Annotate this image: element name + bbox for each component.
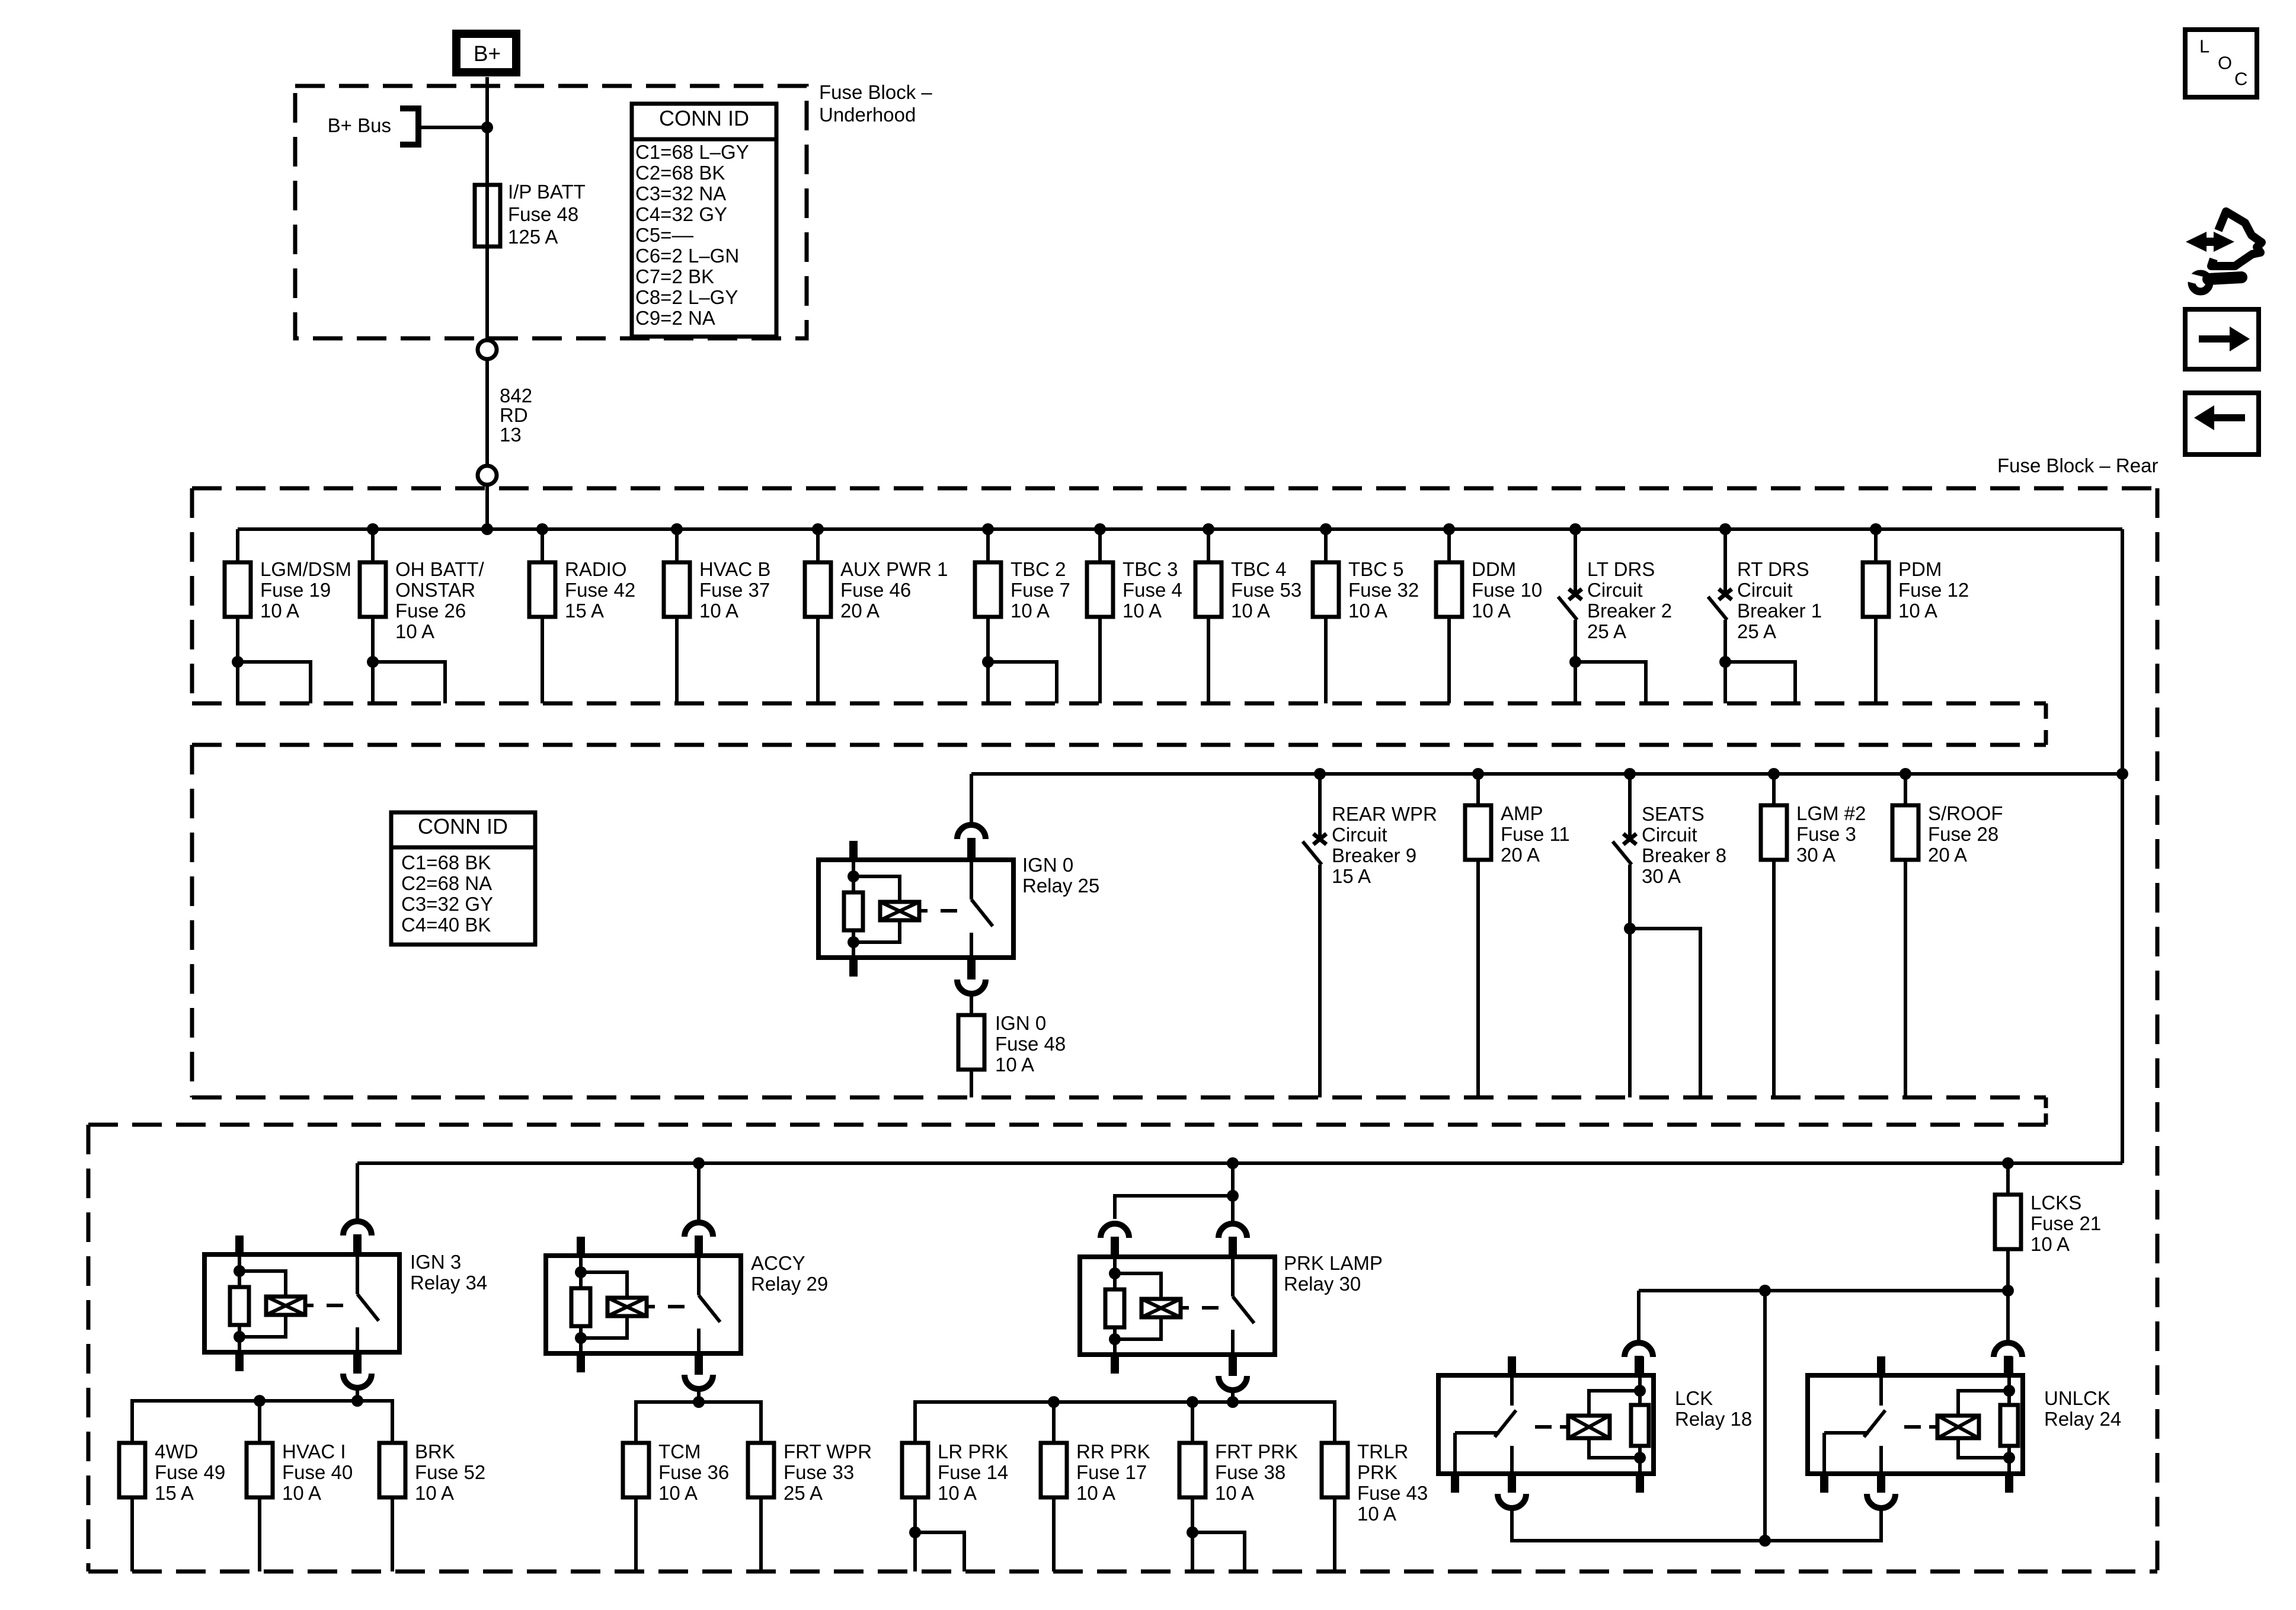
wire output FRT WPR fuse [759, 1497, 763, 1571]
wire feed PRK LAMP relay switch [1231, 1163, 1235, 1224]
relay U29 ACCY coil-to-switch dashed link [647, 1305, 655, 1308]
circuit breaker circuit breaker 1 RT DRS 25A [1719, 589, 1732, 600]
relay U24 UNLCK coil-to-switch dashed link [1929, 1425, 1937, 1429]
wire LCK coil feed [1637, 1291, 1641, 1343]
wire feed RR PRK fuse [1052, 1402, 1056, 1443]
node riser to relay bus [2116, 768, 2128, 780]
relay U25 IGN 0 box [818, 860, 1013, 958]
wire feed fuse PDM Fuse 12 10A [1874, 529, 1878, 562]
connector arc LCK switch bottom [1498, 1494, 1526, 1508]
wire lock rail riser [1763, 1291, 1767, 1541]
fuse fuse TBC 3 Fuse 4 10A [1087, 562, 1113, 617]
wire output 4WD fuse [130, 1497, 134, 1571]
connector arc ACCY relay top [685, 1222, 713, 1237]
wire feed fuse OH BATT/ONSTAR Fuse 26 10A [371, 529, 375, 562]
wire feed fuse RADIO Fuse 42 15A [541, 529, 544, 562]
wire feed fuse TBC 4 Fuse 53 10A [1207, 529, 1210, 562]
wire output fuse RADIO Fuse 42 15A [541, 617, 544, 703]
wire feed fuse AUX PWR 1 Fuse 46 20A [816, 529, 820, 562]
bus B+ feed rail (rear fuse block) [238, 527, 2122, 531]
wire output fork LR PRK fuse [913, 1497, 917, 1532]
fuse fuse HVAC B Fuse 37 10A [664, 562, 690, 617]
wire feed circuit breaker 9 REAR WPR 15A [1318, 774, 1322, 837]
connector arc ACCY relay bottom [695, 1353, 703, 1375]
bus relay/fuse rail section 2 [971, 772, 2122, 776]
wire output fuse TBC 3 Fuse 4 10A [1098, 617, 1102, 703]
relay U34 IGN 3 box [204, 1254, 399, 1352]
fuse TRLR PRK Fuse 43 10A [1322, 1443, 1348, 1497]
wire feed fuse TBC 2 Fuse 7 10A [986, 529, 990, 562]
fuse FRT PRK Fuse 38 10A [1179, 1443, 1205, 1497]
relay U24 UNLCK switch [1879, 1375, 1883, 1406]
fuse FRT WPR Fuse 33 25A [748, 1443, 774, 1497]
relay U30 PRK LAMP switch pin stubs [1229, 1238, 1237, 1257]
relay U24 UNLCK box [1808, 1375, 2023, 1474]
relay U18 LCK coil pin stubs [1636, 1356, 1644, 1375]
wire feed ACCY relay [697, 1163, 701, 1222]
fuse fuse PDM Fuse 12 10A [1863, 562, 1889, 617]
wire feed HVAC I fuse [258, 1401, 261, 1443]
connector id table CONN ID underhood [632, 104, 776, 337]
fuse block rear dashed outline section 2 [192, 743, 2046, 747]
connector arc PRK LAMP relay bottom [1229, 1355, 1237, 1376]
wire feed fuse DDM Fuse 10 10A [1447, 529, 1451, 562]
node main feed junction [481, 523, 493, 535]
connector arc PRK LAMP switch top [1219, 1224, 1247, 1238]
wire output fuse AUX PWR 1 Fuse 46 20A [816, 617, 820, 703]
wire feed IGN 3 relay [356, 1163, 359, 1221]
fuse fuse TBC 4 Fuse 53 10A [1195, 562, 1221, 617]
relay U18 LCK coil circuit [1638, 1375, 1642, 1391]
wire feed LGM #2 fuse [1772, 774, 1776, 805]
bus IGN 3 output rail [132, 1401, 392, 1443]
wire output BRK fuse [391, 1497, 394, 1571]
wire circuit 842 RD [485, 359, 489, 466]
svg-text:L: L [2199, 36, 2209, 57]
wire feed fuse TBC 3 Fuse 4 10A [1098, 529, 1102, 562]
wire output LGM #2 fuse [1772, 860, 1776, 1097]
wire output TCM fuse [634, 1497, 638, 1571]
bus PRK LAMP output rail [915, 1402, 1335, 1443]
wire feed LCKS fuse [2006, 1163, 2010, 1195]
relay U18 LCK coil-to-switch dashed link [1560, 1425, 1568, 1429]
relay U29 ACCY coil pin stubs [577, 1237, 585, 1256]
wire output fork circuit breaker 2 LT DRS 25A [1574, 620, 1577, 662]
wire B+ to underhood fuse block [485, 77, 489, 341]
connector arc IGN 3 relay top [343, 1221, 372, 1235]
fuse fuse AUX PWR 1 Fuse 46 20A [805, 562, 831, 617]
wire PRK LAMP relay output [1231, 1390, 1235, 1402]
fuse S/ROOF Fuse 28 20A [1892, 805, 1918, 860]
svg-text:Fuse Block – Rear: Fuse Block – Rear [1997, 454, 2158, 476]
wire output fuse TBC 4 Fuse 53 10A [1207, 617, 1210, 703]
node PRK LAMP coil tap [1227, 1190, 1239, 1202]
fuse IGN 0 Fuse 48 10A [958, 1015, 984, 1070]
wire output fuse TBC 5 Fuse 32 10A [1324, 617, 1328, 703]
relay U29 ACCY coil circuit [579, 1256, 583, 1272]
wire output RR PRK fuse [1052, 1497, 1056, 1571]
wire output circuit breaker 9 REAR WPR 15A [1318, 865, 1322, 1097]
wire output HVAC I fuse [258, 1497, 261, 1571]
fuse I/P BATT Fuse 48 125 A [475, 185, 500, 247]
relay U34 IGN 3 coil pin stubs [235, 1235, 244, 1254]
circuit breaker circuit breaker 9 REAR WPR 15A [1313, 834, 1326, 844]
connector arc LCK coil top [1625, 1343, 1653, 1357]
wire feed IGN 0 relay [970, 774, 973, 825]
relay U25 IGN 0 switch pin stubs [967, 841, 976, 860]
fuse fuse TBC 2 Fuse 7 10A [975, 562, 1001, 617]
bus lock relays feed rail [1639, 1289, 2008, 1292]
svg-text:Fuse Block –Underhood: Fuse Block –Underhood [819, 81, 932, 126]
fuse block underhood dashed outline [295, 86, 807, 338]
wire IGN 0 relay to fuse [970, 994, 973, 1015]
relay U34 IGN 3 coil-to-switch dashed link [305, 1304, 314, 1307]
fuse BRK Fuse 52 10A [379, 1443, 405, 1497]
node lock rail tap [1759, 1285, 1771, 1297]
relay U29 ACCY switch pin stubs [695, 1237, 703, 1256]
fuse 4WD Fuse 49 15A [119, 1443, 145, 1497]
connector arc IGN 0 relay bottom [967, 958, 976, 980]
connector arc UNLCK coil top [1994, 1343, 2022, 1357]
fuse LCKS Fuse 21 10A [1995, 1195, 2021, 1249]
wire feed S/ROOF fuse [1904, 774, 1907, 805]
wire output fork circuit breaker 1 RT DRS 25A [1723, 620, 1727, 662]
circuit breaker circuit breaker 2 LT DRS 25A [1569, 589, 1582, 600]
relay U34 IGN 3 switch pin stubs [353, 1235, 362, 1254]
fuse LGM #2 Fuse 3 30A [1761, 805, 1787, 860]
wire feed circuit breaker 8 SEATS 30A [1628, 774, 1632, 837]
relay U18 LCK switch pin stubs [1508, 1356, 1516, 1375]
fuse fuse RADIO Fuse 42 15A [529, 562, 555, 617]
connector arc IGN 3 relay bottom [353, 1352, 362, 1374]
wire output fork FRT PRK fuse [1191, 1497, 1194, 1532]
fuse fuse TBC 5 Fuse 32 10A [1313, 562, 1339, 617]
relay U25 IGN 0 coil pin stubs [849, 841, 858, 860]
wire feed AMP fuse [1476, 774, 1480, 805]
relay U24 UNLCK switch pin stubs [1877, 1356, 1885, 1375]
node lock switched rail junction [1759, 1535, 1771, 1547]
wire output fuse DDM Fuse 10 10A [1447, 617, 1451, 703]
fuse block rear dashed outline section 3 [88, 1123, 2046, 1127]
wire output fork fuse TBC 2 Fuse 7 10A [986, 617, 990, 662]
fuse block rear dashed outline section 1 [192, 486, 2157, 491]
svg-text:B+: B+ [474, 41, 501, 66]
bus switched rail section 3 [357, 1161, 2122, 1165]
relay U30 PRK LAMP coil-to-switch dashed link [1181, 1306, 1189, 1310]
icon back arrow box [2185, 393, 2259, 454]
svg-text:UNLCKRelay 24: UNLCKRelay 24 [2044, 1387, 2121, 1430]
relay U25 IGN 0 coil-to-switch dashed link [919, 909, 928, 913]
B+ Bus terminal bracket [400, 108, 418, 145]
wire ACCY relay output [697, 1389, 701, 1402]
terminal B+ [456, 34, 516, 72]
relay U30 PRK LAMP coil circuit [1113, 1257, 1117, 1273]
relay U30 PRK LAMP switch [1231, 1257, 1235, 1297]
wire output fuse PDM Fuse 12 10A [1874, 617, 1878, 703]
icon forward arrow box [2185, 309, 2259, 369]
fuse LR PRK Fuse 14 10A [902, 1443, 928, 1497]
wire into rear fuse block [485, 485, 489, 529]
svg-text:CONN ID: CONN ID [418, 814, 508, 838]
wire feed fuse TBC 5 Fuse 32 10A [1324, 529, 1328, 562]
relay U18 LCK switch [1510, 1375, 1514, 1406]
wire output fuse HVAC B Fuse 37 10A [675, 617, 679, 703]
fuse TCM Fuse 36 10A [623, 1443, 649, 1497]
fuse AMP Fuse 11 20A [1465, 805, 1491, 860]
connector id table CONN ID rear [391, 812, 535, 945]
relay U29 ACCY switch [697, 1256, 701, 1295]
wire feed FRT PRK fuse [1191, 1402, 1194, 1443]
wire output fork fuse OH BATT/ONSTAR Fuse 26 10A [371, 617, 375, 662]
relay U34 IGN 3 switch [356, 1254, 359, 1294]
in-line connector to rear fuse block [478, 466, 497, 485]
svg-text:C1=68 BKC2=68 NAC3=32 GYC4=40: C1=68 BKC2=68 NAC3=32 GYC4=40 BK [401, 852, 493, 936]
wire feed circuit breaker 1 RT DRS 25A [1723, 529, 1727, 593]
node LCKS output junction [2002, 1285, 2014, 1297]
wire B+ Bus to main feed [418, 126, 487, 129]
icon LOC legend box [2185, 30, 2257, 97]
fuse fuse LGM/DSM Fuse 19 10A [225, 562, 251, 617]
relay U30 PRK LAMP box [1080, 1257, 1275, 1355]
node B+ Bus junction [481, 121, 493, 133]
wire output fork circuit breaker 8 SEATS 30A [1628, 865, 1632, 929]
svg-text:C: C [2234, 69, 2247, 89]
svg-text:CONN ID: CONN ID [659, 106, 749, 130]
fuse fuse OH BATT/ONSTAR Fuse 26 10A [360, 562, 386, 617]
wire output S/ROOF fuse [1904, 860, 1907, 1097]
fuse HVAC I Fuse 40 10A [247, 1443, 273, 1497]
wire feed PRK LAMP relay coil [1115, 1196, 1233, 1219]
bus ACCY output rail [636, 1402, 761, 1443]
relay U30 PRK LAMP coil pin stubs [1111, 1238, 1119, 1257]
wire right feed riser [2121, 529, 2124, 1163]
relay U25 IGN 0 switch [970, 860, 973, 900]
svg-text:B+ Bus: B+ Bus [328, 114, 391, 136]
in-line connector on circuit 842 [478, 340, 497, 359]
wire lock relays switched rail [1512, 1508, 1881, 1541]
connector arc UNLCK switch bottom [1867, 1494, 1895, 1508]
svg-text:O: O [2218, 53, 2232, 73]
wire UNLCK coil feed [2006, 1291, 2010, 1343]
wire feed fuse HVAC B Fuse 37 10A [675, 529, 679, 562]
circuit breaker circuit breaker 8 SEATS 30A [1623, 834, 1636, 844]
wire output TRLR PRK fuse [1333, 1497, 1336, 1571]
relay U34 IGN 3 coil circuit [238, 1254, 241, 1271]
fuse block rear dashed right edge [2156, 488, 2160, 1571]
wire feed circuit breaker 2 LT DRS 25A [1574, 529, 1577, 593]
fuse RR PRK Fuse 17 10A [1041, 1443, 1067, 1497]
wire feed fuse LGM/DSM Fuse 19 10A [236, 529, 239, 562]
wire output fork fuse LGM/DSM Fuse 19 10A [236, 617, 239, 662]
connector arc PRK LAMP coil top [1101, 1224, 1129, 1238]
fuse fuse DDM Fuse 10 10A [1436, 562, 1462, 617]
wire output AMP fuse [1476, 860, 1480, 1097]
wire output LCKS fuse [2006, 1249, 2010, 1291]
connector arc IGN 0 relay top [957, 825, 986, 839]
wire IGN 3 relay output [356, 1388, 359, 1401]
relay U18 LCK box [1438, 1375, 1654, 1474]
relay U29 ACCY box [546, 1256, 741, 1353]
relay U24 UNLCK coil circuit [2007, 1375, 2011, 1391]
relay U25 IGN 0 coil circuit [852, 860, 855, 876]
relay U24 UNLCK coil pin stubs [2005, 1356, 2013, 1375]
icon electrical diagnosis (arrows, outline, wrench) [2186, 232, 2234, 252]
wire output IGN 0 fuse [970, 1070, 973, 1097]
